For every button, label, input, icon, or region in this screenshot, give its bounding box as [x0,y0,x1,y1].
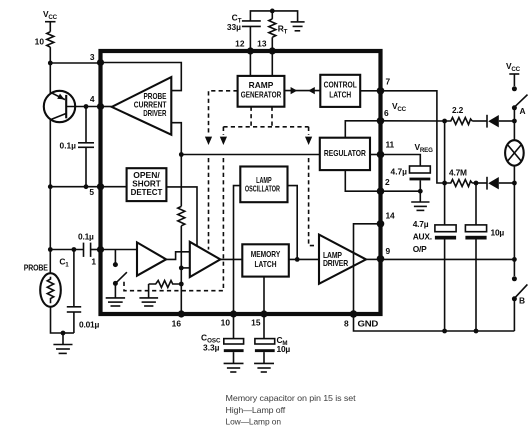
pin 13 [269,47,276,54]
wire regulator bottom to pin 2 [345,170,380,191]
resistor 2.2 [445,105,473,125]
svg-text:DRIVER: DRIVER [143,108,166,118]
wire pin 6 to regulator top [345,121,380,138]
MEMORY LATCH block [242,244,288,276]
junction rail at C1 node [48,247,53,252]
wire node A to lamp [513,121,515,141]
svg-text:VCC: VCC [392,101,407,113]
svg-text:LATCH: LATCH [255,259,277,269]
svg-text:0.1µ: 0.1µ [60,141,77,151]
capacitor CT 33u [227,13,261,52]
pin 16 [178,310,185,317]
external: pin 7 wire down to 4.7M row [381,91,445,183]
svg-text:A: A [520,106,526,116]
svg-text:7: 7 [386,77,391,87]
pin 14 [377,220,385,228]
svg-text:GENERATOR: GENERATOR [241,89,282,99]
Vcc supply symbol top-left [43,9,58,32]
svg-text:O/P: O/P [413,244,427,254]
svg-text:16: 16 [172,319,182,329]
wire lamp down [513,165,515,259]
open/short output wire to amp2 top [166,187,197,246]
wire cap to pin 1 [91,249,101,251]
pin 9 wire to switch B [381,258,515,260]
lamp osc left tab down to pin 10 [234,186,241,314]
wire regulator right to pin 11 [370,154,381,156]
CONTROL LATCH block [320,75,360,107]
wire resistor down to amp2 input node [180,226,182,314]
REGULATOR block [320,138,370,170]
wire pin 1 to amp A1 [101,249,138,251]
capacitor 0.1u [60,141,94,151]
svg-text:High—Lamp off: High—Lamp off [226,405,286,415]
wire amp A1 to amp A2 [166,252,190,260]
svg-text:MEMORY: MEMORY [251,249,281,259]
wire pin 4 to probe driver input [101,106,112,108]
wire amp A2 to memory latch [220,258,242,260]
capacitor Cosc 3.3u [201,314,244,363]
svg-text:VCC: VCC [43,9,58,21]
switch A [512,86,528,121]
caption text [226,393,357,427]
node vertical to aux cap [444,121,446,183]
probe driver output wire down [171,123,181,207]
feedback resistor to ground [149,281,184,298]
pin 2 [377,187,385,195]
ground probe node [53,331,72,354]
dashed drop to Vreg wire left [222,127,224,135]
pin 4 [97,103,104,110]
svg-text:5: 5 [89,187,94,197]
resistor 4.7M [445,168,473,187]
pin 10 [230,310,237,317]
svg-text:13: 13 [257,39,267,49]
wire ramp to control latch with arrows [284,87,320,94]
svg-text:AUX.: AUX. [413,232,432,242]
svg-text:DETECT: DETECT [131,187,164,197]
pin 11 [377,151,385,159]
svg-text:4.7µ: 4.7µ [413,219,429,229]
pin 9 [377,255,385,263]
internal Vreg wire to regulator [181,154,319,156]
svg-text:OSCILLATOR: OSCILLATOR [245,183,280,193]
wire node to pin 3 [50,62,100,64]
wire lamp driver to pin 9 [366,258,381,260]
svg-text:REGULATOR: REGULATOR [324,148,366,158]
svg-text:15: 15 [251,318,261,328]
svg-text:VCC: VCC [506,61,521,73]
svg-text:4.7M: 4.7M [449,168,467,178]
svg-text:PROBE: PROBE [24,263,48,273]
arrow down [220,137,227,145]
wire rail to pin 5 [50,186,100,188]
top rail wire [250,11,297,22]
wire pin12 to ramp generator [249,51,251,76]
pin 15 [260,310,267,317]
capacitor 0.01u [63,250,100,334]
Vcc supply symbol top right [506,61,521,86]
arrow down [205,137,212,145]
dashed horizontal bus [223,126,308,128]
dashed continues to lamp driver [309,158,317,246]
svg-text:LATCH: LATCH [329,89,351,99]
wire junction down to capacitor [85,107,87,143]
PROBE CURRENT DRIVER op-amp [112,77,172,135]
capacitor 10u [465,183,504,331]
svg-text:12: 12 [235,39,245,49]
wire capacitor to pin5 wire [85,147,87,186]
lamp osc right tab down to lamp driver input node [288,186,298,260]
svg-text:4.7µ: 4.7µ [391,167,408,177]
transistor Q1 [44,91,75,122]
resistor below open/short [178,206,185,225]
dashed ramp gen bottom left [250,107,252,127]
amp2 lower input from divider node [179,266,184,271]
svg-text:14: 14 [386,211,395,221]
RAMP GENERATOR block [238,76,285,107]
pin 7 [377,87,385,95]
dashed ramp gen bottom right [271,107,273,127]
amp A1 [137,242,166,275]
svg-text:10µ: 10µ [491,228,505,238]
junction 10u branch [474,181,479,186]
pin 6 wire to Vcc node [381,120,445,122]
svg-text:11: 11 [386,140,395,150]
memory latch output to lamp driver [289,258,319,260]
svg-text:0.01µ: 0.01µ [79,319,100,329]
svg-text:GND: GND [358,318,379,328]
svg-text:9: 9 [386,246,391,256]
svg-text:10: 10 [35,37,45,47]
pin 3 internal wire to probe driver [101,63,182,91]
capacitor 4.7u aux [413,219,456,331]
diode D1 [472,115,514,128]
svg-text:3.3µ: 3.3µ [203,343,220,353]
wire left rail down to transistor [49,63,51,94]
capacitor Cm 10u [255,314,291,363]
dashed drop to Vreg wire right [308,127,310,135]
ground under Vreg cap [411,202,429,210]
svg-text:CONTROL: CONTROL [324,80,357,90]
svg-text:Low—Lamp on: Low—Lamp on [226,417,282,427]
vertical rail down to aux cap [444,183,446,225]
pin 6 [377,117,385,125]
memory latch bottom to pin 15 [263,277,265,314]
diode D2 [472,177,514,190]
dashed ramp gen left control [209,91,238,135]
wire pin 5 to open/short [101,186,127,188]
resistor RT [269,11,288,51]
ground rail from pin 8 [354,314,515,331]
wire control latch to pin 7 [360,90,380,92]
svg-text:DRIVER: DRIVER [323,258,348,268]
LAMP OSCILLATOR block [240,167,287,203]
svg-text:2.2: 2.2 [452,105,464,115]
capacitor 4.7u Vreg electrolytic [391,166,431,202]
wire resistor to node [49,47,51,63]
capacitor C1 0.1u series [59,232,94,269]
ground under Cm [254,363,274,372]
svg-text:8: 8 [344,319,349,329]
svg-text:0.1µ: 0.1µ [78,232,94,242]
ground top [291,22,305,31]
svg-text:10: 10 [221,318,231,328]
svg-text:VREG: VREG [415,142,434,154]
svg-text:33µ: 33µ [227,22,241,32]
ground under switch [106,298,125,306]
svg-text:C1: C1 [59,256,69,268]
wire left rail transistor to bottom [49,119,51,249]
probe element [40,250,63,334]
switch B [512,259,528,331]
svg-text:RT: RT [278,24,288,36]
wire pin 11 to Vreg cap [381,155,421,167]
dashed continues to amp2 [208,158,210,250]
junction on rail at pin5 wire [48,184,53,189]
dashed continues to chopper switch [124,158,223,291]
pin 1 [97,246,104,253]
wire pin 2 to cap node [381,190,421,192]
pin 5 [97,183,104,190]
svg-text:10µ: 10µ [277,344,291,354]
lamp indicator [505,140,524,166]
svg-text:3: 3 [90,52,95,62]
node junction [48,61,53,66]
svg-text:Memory capacitor on pin 15 is: Memory capacitor on pin 15 is set [226,393,357,403]
junction base/cap [84,104,89,109]
pin 8 [350,310,358,318]
LAMP DRIVER op-amp [319,235,366,284]
svg-text:6: 6 [384,108,389,118]
amp A2 [190,242,221,277]
IC package outline (thick box) [101,51,381,314]
ground under feedback resistor [139,298,158,306]
ground under Cosc [224,363,244,372]
wire pin 14 down to pin 8 [354,224,381,314]
pin 3 [97,59,104,66]
junction node A branch [512,119,517,124]
wire C1 node right [50,249,83,251]
svg-text:2: 2 [385,177,390,187]
OPEN/SHORT DETECT block [127,168,167,201]
pin 12 [247,47,254,54]
chopper switch [113,250,127,298]
arrow down [305,137,312,145]
junction Vcc branch [442,119,447,124]
resistor 10 [35,32,54,47]
wire base to pin 4 [66,106,100,108]
svg-text:4: 4 [90,94,95,104]
svg-text:1: 1 [91,256,96,266]
wire pin13 to ramp generator [271,51,273,76]
svg-text:B: B [519,296,525,306]
